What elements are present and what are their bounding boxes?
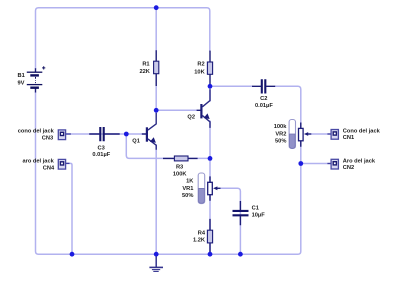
wire CN2 row [301, 163, 331, 165]
VR2 slider indicator [289, 120, 295, 149]
node C2 / R2 / Q2 collector [208, 84, 213, 89]
svg-text:R1: R1 [142, 62, 149, 68]
svg-text:10K: 10K [194, 69, 205, 75]
wire Q1 emitter down to ground rail [155, 145, 157, 254]
transistor Q2 [197, 89, 210, 128]
wire Q2 base row [156, 109, 196, 111]
resistor R3 [163, 156, 198, 161]
svg-text:C3: C3 [98, 145, 105, 151]
node CN2 / right rail [298, 161, 303, 166]
svg-text:C2: C2 [260, 96, 267, 102]
node top rail / R1 [154, 5, 159, 10]
svg-text:CN2: CN2 [343, 165, 354, 171]
connector CN2 [327, 159, 338, 169]
resistor R4 [207, 219, 212, 254]
wire feedback Q1 base down to R3 [126, 134, 210, 158]
potentiometer VR1 [208, 176, 221, 200]
resistor R2 [207, 51, 212, 87]
wire VR2 wiper to CN1 [308, 133, 331, 135]
wire C2 left from Q2 collector node [210, 85, 252, 87]
svg-text:9V: 9V [18, 80, 25, 86]
wire Q2 collector to C2 node [209, 86, 211, 101]
svg-text:22K: 22K [139, 69, 150, 75]
svg-text:Q1: Q1 [132, 139, 140, 145]
wire CN4 elbow down to ground rail [66, 163, 72, 254]
node Q2 base / R1 bottom [154, 108, 159, 113]
connector CN3 [58, 130, 71, 140]
svg-text:B1: B1 [18, 73, 25, 79]
node Q1 base / C3 / feedback [124, 132, 129, 137]
connector CN1 [327, 130, 338, 140]
ground [149, 254, 163, 271]
capacitor C2 [252, 79, 275, 93]
wire top rail from battery top to R2 column [36, 8, 210, 69]
svg-text:VR2: VR2 [275, 132, 286, 138]
svg-text:CN3: CN3 [42, 135, 53, 141]
node CN4 / ground rail [70, 252, 75, 257]
svg-text:CN4: CN4 [43, 165, 55, 171]
svg-text:Cono del jack: Cono del jack [343, 128, 381, 134]
connector CN4 [58, 159, 69, 169]
wire R1 bottom to Q2 base node [155, 86, 157, 110]
node Q1 emitter / ground rail [154, 252, 159, 257]
svg-text:R3: R3 [176, 165, 183, 171]
wire Q2 emitter column down through VR1 and R4 [209, 121, 211, 254]
wire battery bottom + bottom rail + right rail + C2 right [36, 86, 301, 254]
wire input row CN3 to Q1 base [66, 133, 146, 135]
svg-text:0.01µF: 0.01µF [92, 152, 110, 158]
svg-text:C1: C1 [252, 205, 259, 211]
node R3 / Q2 emitter / VR1 [208, 156, 213, 161]
transistor Q1 [142, 113, 156, 150]
svg-text:CN1: CN1 [343, 135, 354, 141]
svg-text:1.2K: 1.2K [193, 238, 206, 244]
VR1 slider indicator [198, 173, 205, 204]
wire R1 branch from top rail [155, 8, 157, 51]
svg-text:50%: 50% [275, 139, 286, 145]
svg-text:1K: 1K [186, 179, 194, 185]
node R4 / ground rail [208, 252, 213, 257]
resistor R1 [154, 50, 159, 86]
svg-text:aro del jack: aro del jack [22, 158, 54, 164]
capacitor C3 [89, 127, 120, 141]
svg-text:10µF: 10µF [252, 213, 266, 219]
svg-text:VR1: VR1 [182, 186, 193, 192]
svg-text:0.01µF: 0.01µF [255, 103, 273, 109]
svg-text:50%: 50% [182, 193, 193, 199]
potentiometer VR2 [299, 123, 312, 147]
wire VR1 wiper to C1 [217, 188, 241, 254]
node C1 / ground rail [238, 252, 243, 257]
capacitor C1 [233, 201, 249, 225]
svg-text:R2: R2 [197, 62, 204, 68]
svg-text:cono del jack: cono del jack [18, 128, 55, 134]
svg-text:100k: 100k [274, 124, 287, 130]
wire Q1 collector stub [155, 110, 157, 113]
svg-text:Aro del jack: Aro del jack [343, 159, 376, 165]
svg-text:100K: 100K [173, 172, 187, 178]
battery B1 [27, 66, 46, 92]
svg-text:Q2: Q2 [187, 115, 195, 121]
svg-text:R4: R4 [198, 231, 206, 237]
